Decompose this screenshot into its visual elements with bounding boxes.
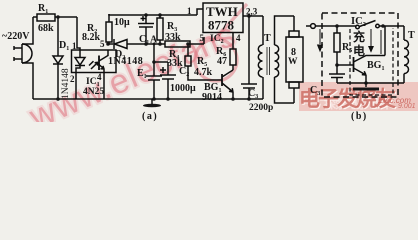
wire node A down [154,44,168,62]
bottom rail [33,98,263,100]
svg-text:T: T [408,30,415,41]
node junction at R1 right [56,15,60,19]
node drop to E1 [153,43,156,46]
emitter ground bar [353,81,379,90]
capacitor C3 2200p [241,16,273,113]
svg-text:(b): (b) [351,111,368,122]
wire pins 2,3 to output node [243,15,263,17]
capacitor C2 1000u [160,62,196,99]
charge label and arrow [353,29,381,58]
svg-text:2: 2 [70,74,75,84]
bottom wire of b [337,82,404,84]
svg-text:W: W [288,57,298,67]
node R3 bottom [158,42,162,46]
svg-text:8.2k: 8.2k [82,32,101,43]
wire input to switch [316,25,357,27]
resistor R5 in b [334,26,352,65]
transformer T in b [404,26,415,83]
lamp 8W [286,16,303,103]
svg-text:~220V: ~220V [2,31,30,42]
wire TWH pin 5 [203,37,205,44]
capacitor C1 10u [114,13,154,46]
svg-text:4.7k: 4.7k [194,67,213,78]
resistor R4 33k [165,41,204,69]
svg-text:68k: 68k [38,23,54,34]
resistor R2 8.2k [82,14,112,44]
TWH8778 IC2 box [187,3,258,45]
svg-text:9014: 9014 [202,92,222,103]
wire pin4 to bottom rail [103,73,105,100]
transformer T [258,16,294,103]
svg-text:47: 47 [217,56,227,67]
inner dashed box IC2 [350,28,393,95]
diode D2 1N4148 [108,39,165,67]
capacitor E1 [137,62,162,99]
wire TWH pin 1 [197,9,203,15]
resistor R5 4.7k [185,44,222,80]
ground [143,99,161,107]
svg-text:1: 1 [187,6,192,16]
svg-text:4N25: 4N25 [83,87,104,97]
svg-text:2200p: 2200p [249,103,273,113]
wire pin1 of opto [77,17,80,50]
transistor BG1 9014 [202,70,233,103]
svg-text:9.001: 9.001 [398,103,416,110]
svg-text:4: 4 [236,33,241,43]
transistor BG1 in b [337,26,385,83]
svg-text:1000μ: 1000μ [170,83,196,94]
svg-text:5: 5 [200,33,205,43]
terminal input of detail b [306,24,315,29]
node pin5 junction [106,42,110,46]
optocoupler IC1 4N25 [70,39,116,97]
node C1 bottom [144,42,148,46]
wire plug to top rail [22,17,33,99]
svg-text:5: 5 [100,39,105,49]
wire pin2 to bottom rail [75,73,77,100]
svg-text:1N4148: 1N4148 [108,56,143,67]
resistor R3 33k [157,13,181,44]
switch IC2 [351,16,404,29]
resistor R1 68k [33,3,77,34]
dashed enclosure b [322,13,398,97]
wire down to D1 [57,17,59,56]
svg-text:电: 电 [353,43,365,58]
top supply rail [109,14,197,15]
AC plug ~220V [2,31,32,63]
capacitor C3 in b [310,65,345,97]
node R4 right [186,42,190,46]
svg-text:4: 4 [97,72,102,82]
svg-text:10μ: 10μ [114,17,130,28]
diode D1 1N4148 [53,40,71,99]
svg-text:T: T [264,33,271,44]
resistor R6 47 [216,33,236,71]
svg-text:充: 充 [353,29,365,44]
svg-text:1: 1 [72,41,77,51]
current arrow into box b [318,29,323,51]
svg-text:(a): (a) [142,111,158,122]
svg-text:8778: 8778 [208,18,235,33]
